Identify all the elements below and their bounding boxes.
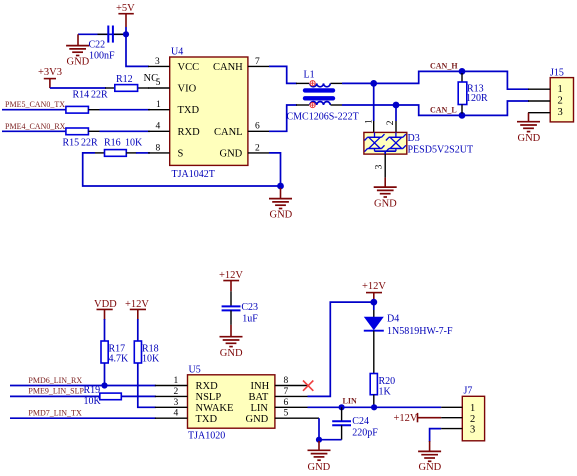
- capacitor C22: [89, 26, 124, 62]
- U4 pin 7 (CANH): [248, 57, 269, 67]
- J7 pin 3: [441, 428, 462, 430]
- svg-text:10K: 10K: [142, 354, 160, 365]
- svg-text:PESD5V2S2UT: PESD5V2S2UT: [408, 145, 474, 156]
- U5 pin 7 (BAT): [275, 387, 308, 397]
- connector J7: [462, 385, 484, 440]
- svg-text:+12V: +12V: [125, 299, 149, 310]
- junction LIN / C24: [339, 404, 345, 410]
- svg-text:GND: GND: [67, 57, 90, 68]
- svg-text:R14: R14: [73, 90, 90, 101]
- svg-text:1K: 1K: [379, 387, 392, 398]
- svg-text:4: 4: [156, 122, 161, 132]
- no connect X on pin 8: [303, 381, 313, 391]
- svg-text:TXD: TXD: [196, 414, 218, 425]
- TVS element A of D3: [365, 132, 385, 151]
- D3 pin 3: [374, 154, 385, 178]
- svg-text:R15: R15: [63, 138, 80, 149]
- wire R18 to NWAKE pin 3: [138, 363, 156, 407]
- U5 pin 4 (TXD): [155, 409, 188, 419]
- svg-text:PMD7_LIN_TX: PMD7_LIN_TX: [28, 408, 82, 417]
- wire C22 to +5V node: [78, 33, 126, 35]
- svg-text:GND: GND: [374, 199, 397, 210]
- diode D4 1N5819HW-7-F: [364, 314, 453, 338]
- svg-text:TXD: TXD: [178, 105, 200, 116]
- svg-text:LIN: LIN: [251, 403, 269, 414]
- wire GND pin2 down to ground: [269, 153, 281, 189]
- svg-text:CMC1206S-222T: CMC1206S-222T: [287, 112, 359, 123]
- svg-text:120R: 120R: [466, 93, 488, 104]
- svg-text:PME9_LIN_SLP: PME9_LIN_SLP: [28, 387, 84, 396]
- power +12V (D4): [362, 281, 386, 300]
- wire PME9_LIN_SLP to R19: [10, 395, 101, 397]
- wire R14 to U4 TXD pin 1: [100, 109, 151, 111]
- svg-text:GND: GND: [246, 414, 269, 425]
- svg-text:CAN_H: CAN_H: [430, 62, 458, 71]
- svg-text:D4: D4: [387, 314, 399, 325]
- capacitor C24 220pF: [332, 407, 378, 439]
- wire +12V to R18: [137, 319, 139, 342]
- svg-text:RXD: RXD: [196, 381, 219, 392]
- wire +3V3 to R12: [50, 87, 106, 89]
- connector J15: [550, 67, 574, 122]
- wire CAN_L net: [342, 101, 529, 115]
- svg-text:BAT: BAT: [249, 392, 269, 403]
- svg-text:C24: C24: [352, 416, 369, 427]
- TVS diode D3 PESD5V2S2UT: [364, 83, 473, 155]
- wire PME5_CAN0_TX to R14: [2, 109, 67, 111]
- wire PMD7_LIN_TX to U5 TXD pin 4: [10, 417, 156, 419]
- U5 pin 1 (RXD): [155, 376, 188, 386]
- resistor R17 4.7K: [101, 341, 129, 365]
- svg-text:C23: C23: [241, 302, 258, 313]
- resistor R13 120R: [458, 73, 488, 114]
- J15 pin 2: [528, 100, 550, 102]
- svg-text:3: 3: [174, 398, 179, 408]
- junction S rail / GND: [277, 183, 284, 190]
- svg-text:10K: 10K: [84, 396, 102, 407]
- power +12V (J7 pin 2): [394, 413, 442, 424]
- wire R20 to LIN net: [373, 395, 375, 408]
- svg-text:GND: GND: [419, 462, 442, 473]
- junction R17 / PMD6_LIN_RX: [101, 382, 107, 388]
- junction CAN_L / D3 pin 2: [393, 102, 400, 109]
- svg-text:1: 1: [156, 100, 161, 110]
- U4 pin 3 (VCC): [148, 57, 170, 67]
- svg-text:8: 8: [156, 143, 161, 153]
- svg-text:R16: R16: [104, 138, 121, 149]
- U5 pin 2 (NSLP): [155, 387, 188, 397]
- svg-text:3: 3: [470, 425, 475, 436]
- ground at J15 pin 3: [517, 113, 541, 144]
- resistor R15 22R: [63, 128, 100, 149]
- U5 pin 6 (LIN): [275, 398, 308, 408]
- svg-text:5: 5: [156, 78, 161, 88]
- svg-text:D3: D3: [408, 133, 420, 144]
- wire C24 to GND net: [319, 439, 342, 441]
- wire D4 to R20: [373, 331, 375, 374]
- resistor R14 22R: [66, 90, 108, 114]
- inductor L1 CMC1206S-222T: [287, 70, 359, 123]
- svg-text:U5: U5: [189, 364, 201, 375]
- svg-text:1uF: 1uF: [242, 314, 258, 325]
- U5 pin 5 (GND): [275, 409, 319, 419]
- svg-text:S: S: [178, 148, 184, 159]
- svg-text:1: 1: [174, 376, 179, 386]
- svg-text:+12V: +12V: [362, 281, 386, 292]
- wire +5V to U4 VCC pin 3: [126, 27, 149, 66]
- resistor R16 10K: [95, 138, 143, 157]
- svg-text:1: 1: [365, 119, 375, 124]
- capacitor C23 1uF: [222, 291, 259, 325]
- IC U5 TJA1020: [188, 364, 275, 441]
- U4 pin 1 (TXD): [148, 100, 170, 110]
- U4 pin 2 (GND): [248, 143, 269, 153]
- ground under D3: [374, 178, 397, 210]
- U4 pin 5 (VIO): [148, 78, 170, 88]
- svg-text:3: 3: [155, 57, 160, 67]
- ground under U4 pin 2: [269, 188, 293, 221]
- wire S net to GND rail: [83, 153, 281, 186]
- svg-text:NSLP: NSLP: [196, 392, 222, 403]
- svg-text:2: 2: [174, 387, 179, 397]
- svg-text:220pF: 220pF: [352, 428, 378, 439]
- wire R17 to RXD net: [104, 363, 106, 386]
- ground under C22: [66, 34, 90, 67]
- svg-text:J15: J15: [550, 67, 564, 78]
- svg-text:TJA1042T: TJA1042T: [172, 169, 215, 180]
- svg-text:GND: GND: [270, 210, 293, 221]
- svg-text:VDD: VDD: [94, 299, 117, 310]
- svg-text:7: 7: [255, 57, 260, 67]
- wire PME4_CAN0_RX to R15: [2, 130, 67, 132]
- svg-text:L1: L1: [304, 70, 315, 81]
- ground under J7: [418, 441, 442, 473]
- wire GND pin5 down: [318, 418, 320, 441]
- resistor R20 1K: [370, 374, 395, 398]
- J15 pin 3: [528, 112, 550, 114]
- U5 pin 8 (INH): [275, 376, 308, 386]
- junction CAN_L / R13: [459, 112, 466, 119]
- U5 pin 3 (NWAKE): [155, 398, 188, 408]
- svg-text:PMD6_LIN_RX: PMD6_LIN_RX: [28, 376, 82, 385]
- wire CAN_H net: [342, 71, 529, 89]
- svg-text:VCC: VCC: [178, 62, 200, 73]
- svg-text:+12V: +12V: [394, 413, 418, 424]
- junction CAN_H / D3 pin 1: [370, 80, 377, 87]
- wire R16 to U4 S pin 8: [136, 152, 150, 154]
- svg-text:LIN: LIN: [343, 396, 357, 405]
- J7 pin 1: [441, 406, 462, 408]
- svg-text:PME5_CAN0_TX: PME5_CAN0_TX: [5, 100, 65, 109]
- svg-text:2: 2: [255, 143, 260, 153]
- svg-text:R19: R19: [84, 385, 101, 396]
- svg-text:5: 5: [284, 409, 289, 419]
- wire CANH pin7 to L1: [269, 66, 297, 83]
- wire R15 to U4 RXD pin 4: [100, 130, 151, 132]
- power +12V (C23): [219, 270, 243, 291]
- svg-text:NWAKE: NWAKE: [196, 403, 234, 414]
- U4 pin 6 (CANL): [248, 122, 269, 132]
- resistor R12: [105, 74, 149, 91]
- svg-text:J7: J7: [464, 385, 473, 396]
- svg-text:+5V: +5V: [116, 3, 135, 14]
- wire R19 to U5 NSLP pin 2: [121, 395, 156, 397]
- svg-text:4: 4: [174, 409, 179, 419]
- junction +12V / BAT / D4: [370, 299, 377, 306]
- svg-text:2: 2: [386, 120, 396, 125]
- svg-text:3: 3: [558, 107, 563, 118]
- svg-text:C22: C22: [89, 40, 106, 51]
- svg-text:7: 7: [284, 387, 289, 397]
- power +5V: [116, 3, 135, 27]
- ground under U5 pin 5: [308, 441, 331, 473]
- svg-text:100nF: 100nF: [89, 51, 115, 62]
- wire BAT to +12V node: [308, 302, 374, 396]
- svg-text:CANL: CANL: [214, 127, 243, 138]
- wire VDD to R17: [104, 319, 106, 342]
- J7 pin 2: [441, 417, 462, 419]
- svg-text:GND: GND: [220, 348, 243, 359]
- svg-text:6: 6: [284, 398, 289, 408]
- svg-text:GND: GND: [518, 133, 541, 144]
- svg-text:10K: 10K: [125, 138, 143, 149]
- svg-text:GND: GND: [308, 462, 331, 473]
- TVS element B of D3: [386, 132, 406, 151]
- svg-text:3: 3: [374, 164, 384, 169]
- U4 pin 8 (S): [148, 143, 170, 153]
- junction +5V / C22: [123, 31, 129, 37]
- svg-text:+12V: +12V: [219, 270, 243, 281]
- resistor R19 10K: [84, 385, 122, 407]
- svg-text:1N5819HW-7-F: 1N5819HW-7-F: [387, 326, 453, 337]
- svg-text:CAN_L: CAN_L: [430, 105, 457, 114]
- svg-text:6: 6: [255, 122, 260, 132]
- IC U4 TJA1042T: [170, 47, 248, 181]
- svg-text:RXD: RXD: [178, 127, 201, 138]
- svg-text:R12: R12: [116, 74, 133, 85]
- U4 pin 4 (RXD): [148, 122, 170, 132]
- junction GND net / C24: [316, 437, 322, 443]
- junction CAN_H / R13: [459, 68, 466, 75]
- junction LIN / R20: [371, 404, 377, 410]
- wire LIN net to J7 pin 1: [308, 406, 442, 408]
- svg-text:INH: INH: [251, 381, 270, 392]
- wire J7 pin3 to ground: [430, 429, 442, 442]
- svg-text:4.7K: 4.7K: [109, 354, 130, 365]
- svg-text:VIO: VIO: [178, 84, 197, 95]
- resistor R18 10K: [134, 341, 160, 365]
- svg-text:2: 2: [470, 414, 475, 425]
- J15 pin 1: [528, 88, 550, 90]
- power VDD: [94, 299, 117, 320]
- svg-text:1: 1: [558, 84, 563, 95]
- wire CANL pin6 to L1: [269, 105, 297, 131]
- svg-text:TJA1020: TJA1020: [188, 431, 225, 442]
- ground under C23: [220, 325, 243, 359]
- svg-text:2: 2: [558, 96, 563, 107]
- svg-text:1: 1: [470, 403, 475, 414]
- power +3V3: [38, 67, 62, 88]
- svg-text:CANH: CANH: [213, 62, 243, 73]
- svg-text:+3V3: +3V3: [38, 67, 62, 78]
- svg-text:22R: 22R: [91, 90, 108, 101]
- svg-text:GND: GND: [220, 148, 243, 159]
- svg-text:R20: R20: [379, 376, 396, 387]
- svg-text:U4: U4: [171, 47, 183, 58]
- svg-text:PME4_CAN0_RX: PME4_CAN0_RX: [5, 122, 66, 131]
- power +12V (R18): [125, 299, 149, 320]
- svg-text:8: 8: [284, 376, 289, 386]
- wire +12V node to D4: [373, 299, 375, 310]
- wire PMD6_LIN_RX to U5 RXD pin 1: [10, 385, 156, 387]
- svg-text:22R: 22R: [81, 138, 98, 149]
